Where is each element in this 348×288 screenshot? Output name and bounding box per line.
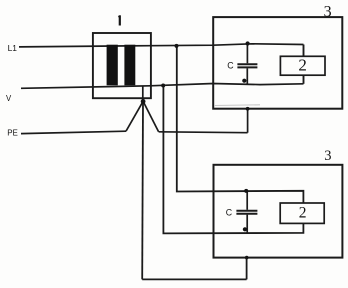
svg-text:2: 2 [299, 204, 307, 221]
wire: PE horizontal run to upper shield riser [159, 131, 248, 134]
shield enclosure 3 (lower) [214, 165, 343, 258]
svg-text:V: V [6, 94, 12, 103]
wire: L1 branch down to lower unit [177, 46, 304, 203]
junction dot: earth star point [141, 99, 146, 104]
junction dot: C1 bottom [242, 79, 246, 83]
junction dot: lower shield bond [245, 256, 249, 260]
svg-text:3: 3 [324, 148, 331, 164]
wire: N branch down to lower unit [163, 86, 303, 234]
capacitor C1 plate bottom [237, 66, 257, 68]
capacitor C2 bottom lead [246, 215, 248, 234]
wire: PE left diagonal leg [126, 101, 143, 131]
faint scan artifact line [214, 104, 260, 107]
wire: bottom loop horizontal [142, 278, 246, 280]
capacitor C1 top lead [246, 44, 248, 64]
svg-text:C: C [226, 207, 233, 217]
junction dot: N branch [161, 84, 165, 88]
junction dot: C2 bottom [243, 227, 247, 231]
junction dot: upper shield bond [246, 107, 250, 111]
wire: PE main drop to bottom loop [141, 101, 144, 279]
wire: upper N lead from device 2 [303, 75, 305, 84]
wire: upper L1 lead into device 2 [303, 45, 305, 57]
shield enclosure 3 (upper) [213, 17, 342, 109]
junction dot: C2 top [244, 189, 248, 193]
wire: bottom loop riser to lower enclosure bottom [246, 258, 248, 280]
svg-text:2: 2 [298, 56, 307, 75]
svg-text:C: C [227, 60, 234, 70]
capacitor C2 plate top [236, 210, 257, 212]
transformer U1 box [93, 33, 151, 98]
wire: riser to upper enclosure bottom [247, 109, 249, 133]
capacitor C2 plate bottom [236, 213, 257, 215]
wire L1 [19, 44, 304, 47]
svg-text:3: 3 [324, 3, 332, 20]
wire N [21, 84, 304, 89]
capacitor C1 plate top [237, 63, 257, 65]
capacitor C2 top lead [246, 191, 248, 210]
device 2 box (upper) [280, 56, 325, 75]
wire: PE right diagonal leg [143, 101, 159, 132]
junction dot: L1 branch [175, 44, 179, 48]
wire PE [21, 131, 126, 133]
wire: N tap down to earth star point [142, 86, 144, 101]
transformer winding bar right [124, 45, 135, 86]
transformer winding bar left [107, 45, 118, 86]
svg-text:PE: PE [7, 129, 18, 138]
svg-text:L1: L1 [8, 43, 18, 53]
device 2 box (lower) [280, 203, 324, 223]
label 1 (transformer) [118, 15, 119, 25]
capacitor C1 bottom lead [246, 68, 248, 84]
junction dot: C1 top [246, 41, 250, 45]
